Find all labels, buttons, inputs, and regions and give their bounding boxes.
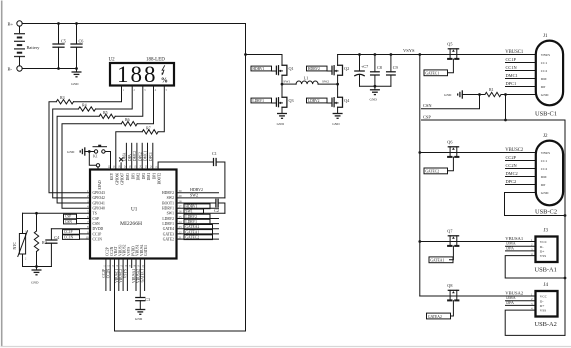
junction J3 vss rail [564, 277, 567, 280]
svg-text:VSS: VSS [540, 309, 546, 313]
svg-text:R2: R2 [42, 240, 47, 245]
svg-text:R1: R1 [489, 87, 494, 92]
wire display pin5 [158, 85, 164, 132]
svg-text:SW2: SW2 [322, 80, 329, 84]
svg-text:GND: GND [31, 281, 39, 285]
junction TS R2 [35, 212, 38, 215]
svg-text:DPA: DPA [506, 300, 514, 305]
svg-text:DPC2: DPC2 [506, 179, 517, 184]
display charge bolt icon [162, 65, 165, 74]
net label GATEA1 row [177, 233, 219, 235]
transistor Q8 [448, 289, 458, 291]
svg-text:C6: C6 [79, 39, 84, 44]
wire NTC bottom rail [23, 266, 52, 268]
net DPC2 stub [506, 184, 536, 186]
svg-text:Q5: Q5 [447, 42, 452, 47]
svg-text:GND: GND [370, 98, 378, 102]
wire gnd to K1 [85, 151, 95, 153]
svg-text:1: 1 [123, 89, 125, 92]
svg-text:U2: U2 [109, 58, 116, 63]
svg-text:C3: C3 [145, 297, 150, 302]
svg-text:GND: GND [71, 82, 79, 86]
svg-text:GATEC1: GATEC1 [141, 269, 145, 283]
wire display pin4 [137, 85, 153, 123]
svg-text:Q4: Q4 [344, 98, 350, 103]
transistor Q6 [448, 146, 458, 148]
svg-text:3: 3 [144, 89, 146, 92]
svg-text:DMC2: DMC2 [133, 151, 137, 161]
svg-text:U1: U1 [131, 207, 138, 213]
svg-text:DM3: DM3 [126, 173, 130, 181]
svg-text:CSP: CSP [93, 217, 100, 221]
wire R3 to U1 pin1 GPIO43 [49, 102, 90, 193]
svg-text:NTC: NTC [13, 241, 17, 249]
svg-text:Q7: Q7 [447, 229, 452, 234]
svg-text:GATE2: GATE2 [163, 237, 174, 241]
capacitor C3 [139, 259, 141, 298]
wire VSYS to Q6 and J2 VBUS [420, 152, 536, 154]
svg-text:GATE3: GATE3 [163, 232, 174, 236]
U1 bottom pin stubs [105, 259, 107, 291]
resistor R4 [78, 107, 95, 111]
wire R7 to U1 GPIO66 [116, 132, 142, 170]
svg-text:R3: R3 [60, 95, 65, 100]
net label HDRV1 at Q1 [251, 66, 272, 71]
net label HDRV1 row [177, 207, 219, 209]
svg-text:HDRV1: HDRV1 [162, 207, 174, 211]
svg-text:CC2: CC2 [541, 167, 548, 171]
svg-text:DMC1: DMC1 [506, 73, 518, 78]
svg-text:VSYS: VSYS [403, 48, 415, 53]
battery BT1 [19, 26, 21, 34]
svg-text:DM: DM [541, 77, 548, 81]
svg-text:LDRV1: LDRV1 [162, 222, 174, 226]
junction VSYS C8 [374, 53, 377, 56]
svg-text:Q2: Q2 [344, 66, 349, 71]
svg-text:GATE4: GATE4 [163, 227, 174, 231]
wire Q5 gate [448, 59, 454, 73]
net DMC2 stub [506, 176, 536, 178]
wire B- to capacitors [22, 68, 76, 70]
svg-text:HDRV2: HDRV2 [308, 67, 320, 71]
wire J3 VSS return [505, 256, 565, 278]
wire CSP vertical from R1 [505, 95, 507, 121]
svg-text:5: 5 [166, 89, 168, 92]
svg-text:CC1: CC1 [541, 159, 548, 163]
capacitor C8 [374, 55, 376, 72]
wire R6 to U1 pin4 GPIO40 [62, 124, 121, 209]
net label GATEC2 row [177, 238, 219, 240]
junction CSP line [504, 119, 507, 122]
svg-text:C4: C4 [54, 235, 60, 240]
net CC2N stub [506, 168, 536, 170]
net label LDRV2 row [177, 218, 219, 220]
wire display pin3 [115, 85, 143, 116]
svg-text:DPC1: DPC1 [506, 81, 517, 86]
svg-text:USB-C2: USB-C2 [535, 209, 557, 216]
capacitor C9 [390, 55, 392, 72]
svg-text:Q8: Q8 [447, 283, 452, 288]
svg-text:CC2N: CC2N [106, 269, 110, 279]
svg-text:KEY: KEY [110, 172, 114, 180]
thermistor NTC R8 [22, 213, 24, 233]
junction VSYS branch [418, 53, 421, 56]
svg-text:GPIO41: GPIO41 [93, 201, 105, 205]
svg-text:C8: C8 [377, 65, 382, 70]
svg-text:GND: GND [135, 317, 143, 321]
junction B+ at C6 [75, 22, 78, 25]
svg-text:D-: D- [540, 245, 545, 249]
net DPC2 wire [141, 143, 143, 169]
junction B- at C5 [57, 67, 60, 70]
ground below Q3 [277, 113, 287, 115]
svg-text:DP2: DP2 [142, 173, 146, 180]
net DPA wire [131, 143, 133, 169]
net label LDRV1 at Q3 [251, 98, 272, 103]
transistor Q5 [448, 48, 458, 50]
svg-text:B+: B+ [8, 22, 14, 27]
svg-text:TS: TS [93, 212, 97, 216]
svg-text:Q1: Q1 [289, 66, 294, 71]
wire J4 VSS return [505, 310, 565, 335]
net CC1N stub [506, 70, 536, 72]
display U2 body [110, 63, 174, 86]
svg-text:VBUSC1: VBUSC1 [505, 50, 524, 55]
inductor L1 [296, 81, 318, 84]
wire display pin1 [74, 85, 122, 101]
svg-text:DM: DM [541, 175, 548, 179]
capacitor C6 [76, 24, 78, 45]
resistor R3 [56, 100, 73, 104]
net label LDRV2 at Q4 [307, 98, 328, 103]
wire R5 to U1 pin3 GPIO41 [57, 116, 99, 203]
svg-text:Q3: Q3 [289, 98, 294, 103]
wire VSYS rail [338, 54, 420, 56]
svg-text:CC2: CC2 [541, 69, 548, 73]
svg-text:USB-C1: USB-C1 [535, 111, 557, 118]
wire R1 to J1 GND pin [501, 94, 536, 96]
junction CSP tap [504, 93, 507, 96]
wire gnd to R1 [462, 94, 485, 96]
svg-text:CC1N: CC1N [64, 235, 74, 239]
wire epad to ground [89, 152, 96, 166]
wire L1 to SW2 [318, 83, 338, 85]
svg-text:CC1: CC1 [541, 61, 548, 65]
svg-text:GND: GND [332, 122, 340, 126]
junction VSYS C9 [390, 53, 393, 56]
svg-text:GPIO40: GPIO40 [93, 207, 105, 211]
pin EPAD bubble [96, 164, 99, 167]
svg-text:GATEA2: GATEA2 [185, 225, 199, 229]
svg-text:DP3: DP3 [131, 173, 135, 180]
svg-text:J3: J3 [544, 229, 549, 234]
svg-text:SW2: SW2 [190, 192, 198, 197]
svg-text:DPC2: DPC2 [138, 152, 142, 161]
net CC1P stub [506, 62, 536, 64]
ground NTC network [36, 267, 38, 271]
wire VBAT to battery rail [115, 24, 246, 332]
svg-text:D+: D+ [540, 250, 545, 254]
junction caps gnd [374, 85, 377, 88]
svg-text:C5: C5 [61, 39, 66, 44]
resistor R1 [485, 92, 501, 96]
capacitor C7 polarized [359, 55, 361, 72]
net label CC1N at U1 [80, 238, 91, 240]
capacitor C1 bootstrap 2 [158, 162, 213, 170]
net label CSP at U1 [77, 218, 91, 220]
svg-text:CC1N: CC1N [93, 237, 103, 241]
svg-text:GATEA1: GATEA1 [185, 230, 199, 234]
svg-text:C9: C9 [393, 65, 398, 70]
net DPA stub J3 [506, 250, 536, 252]
svg-text:LDRV2: LDRV2 [308, 99, 320, 103]
svg-text:CSN: CSN [93, 222, 101, 226]
svg-text:DP: DP [541, 85, 546, 89]
svg-text:SW1: SW1 [185, 210, 193, 214]
svg-text:VCC: VCC [540, 240, 548, 244]
junction CSN tap [478, 93, 481, 96]
net DMA stub J3 [506, 245, 536, 247]
capacitor C5 [58, 24, 60, 45]
junction SW1 [281, 83, 284, 86]
junction rail Q6 [418, 151, 421, 154]
no-connect X on GPIO67 [120, 158, 123, 161]
svg-text:VSYS: VSYS [124, 269, 128, 278]
svg-text:CC2P: CC2P [506, 155, 517, 160]
svg-text:SW1: SW1 [283, 80, 290, 84]
net label GATEA2 row [177, 228, 219, 230]
wire VSYS to Q8 and J4 VCC [420, 295, 536, 297]
svg-text:CSN: CSN [65, 220, 72, 224]
svg-text:GPIO43: GPIO43 [93, 191, 105, 195]
junction battery rail Q1 [244, 53, 247, 56]
svg-text:2: 2 [134, 89, 136, 92]
ground below C8 [374, 86, 376, 90]
svg-text:K1: K1 [93, 155, 98, 159]
svg-text:J1: J1 [543, 34, 548, 39]
net DPC1 wire [152, 143, 154, 169]
svg-text:CSP: CSP [423, 114, 431, 119]
wire J2 GND return [505, 193, 566, 216]
net DMA wire [125, 143, 127, 169]
net label SW1 row [177, 212, 225, 214]
svg-text:CSN: CSN [423, 103, 432, 108]
junction B+ at C5 [57, 22, 60, 25]
net CC2P stub [506, 160, 536, 162]
svg-text:DMC1: DMC1 [144, 151, 148, 161]
svg-text:GPIO66: GPIO66 [115, 173, 119, 185]
wire Q7 gate [450, 246, 454, 260]
svg-text:CC1P: CC1P [506, 57, 517, 62]
svg-text:LDRV2: LDRV2 [185, 215, 197, 219]
svg-text:CC1N: CC1N [506, 65, 518, 70]
resistor R7 [142, 130, 158, 134]
wire VSYS to Q5 and J1 VBUS [420, 54, 536, 56]
svg-text:GATEA1: GATEA1 [430, 259, 444, 263]
net label GATEA1 [429, 257, 453, 263]
pushbutton K1 [94, 150, 97, 153]
svg-text:DMA: DMA [123, 152, 127, 161]
svg-text:GATE1: GATE1 [144, 245, 148, 256]
net DMC2 wire [136, 143, 138, 169]
svg-text:2: 2 [25, 258, 27, 261]
wire B+ rail to top-right corner [22, 23, 245, 25]
svg-text:D-: D- [540, 299, 545, 303]
svg-text:GPIO67: GPIO67 [121, 173, 125, 185]
net label GATEC1 [424, 70, 448, 76]
wire HDRV2 row [177, 192, 219, 194]
wire CSP net [422, 120, 566, 335]
wire battery rail to Q1 [246, 54, 283, 56]
wire R4 to U1 pin2 GPIO42 [53, 109, 90, 198]
svg-text:%: % [161, 77, 168, 85]
ground below C3 [135, 309, 145, 311]
svg-text:J4: J4 [544, 283, 549, 288]
svg-text:DPC1: DPC1 [149, 152, 153, 161]
transistor Q2 [337, 55, 339, 66]
terminal B- [17, 66, 22, 71]
junction VSYS C7 [358, 53, 361, 56]
svg-text:GND: GND [541, 191, 549, 195]
svg-text:+C7: +C7 [361, 64, 368, 69]
svg-text:CC2N: CC2N [506, 163, 518, 168]
net label LDRV1 row [177, 223, 219, 225]
wire caps ground rail [360, 85, 391, 87]
junction gnd epad [88, 150, 91, 153]
svg-text:R5: R5 [103, 110, 108, 115]
svg-text:DP1: DP1 [152, 173, 156, 180]
svg-text:B-: B- [8, 67, 13, 72]
page border left edge [1, 1, 3, 347]
svg-text:VBUSC2: VBUSC2 [505, 148, 524, 153]
svg-text:MI2266H: MI2266H [120, 221, 142, 227]
svg-text:HDRV1: HDRV1 [252, 67, 264, 71]
net DMC1 stub [506, 78, 536, 80]
svg-text:LDRV1: LDRV1 [252, 99, 264, 103]
svg-text:GPIO42: GPIO42 [93, 196, 105, 200]
svg-text:4: 4 [155, 89, 157, 92]
net DPA stub J4 [506, 304, 536, 306]
svg-text:SW1: SW1 [167, 212, 175, 216]
net label CSN at U1 [77, 223, 91, 225]
svg-text:GATEA2: GATEA2 [428, 315, 442, 319]
svg-text:EPAD: EPAD [98, 180, 102, 189]
svg-text:GND: GND [444, 93, 452, 97]
resistor R2 [36, 213, 38, 231]
junction rail Q7 [418, 240, 421, 243]
svg-text:HDRV2: HDRV2 [162, 191, 174, 195]
junction SW2 [336, 83, 339, 86]
svg-text:GND: GND [541, 93, 549, 97]
junction gnd NTC [35, 265, 38, 268]
svg-text:R4: R4 [82, 103, 87, 108]
transistor Q4 [327, 102, 332, 104]
net DMA stub J4 [506, 300, 536, 302]
svg-text:D+: D+ [540, 304, 545, 308]
svg-text:CC1P: CC1P [93, 232, 102, 236]
wire Q6 gate [448, 157, 454, 171]
svg-text:VBUS: VBUS [541, 53, 550, 57]
svg-text:BOOT1: BOOT1 [162, 201, 174, 205]
svg-text:GND: GND [277, 122, 285, 126]
svg-text:DP: DP [541, 183, 546, 187]
svg-text:VBUS: VBUS [541, 151, 550, 155]
svg-text:L1: L1 [304, 76, 309, 81]
svg-text:DMC2: DMC2 [506, 171, 518, 176]
wire K1 to U1 KEY pin [105, 152, 110, 170]
svg-text:DPA: DPA [128, 154, 132, 161]
svg-text:DM2: DM2 [137, 173, 141, 181]
svg-text:BOOT2: BOOT2 [158, 173, 162, 185]
transistor Q1 [281, 55, 283, 66]
net label GATEA2 [427, 313, 451, 319]
svg-text:USB-A2: USB-A2 [535, 321, 557, 328]
capacitor C4 on DVDD [51, 228, 90, 230]
resistor R6 [121, 122, 137, 126]
page border bottom edge [1, 346, 571, 348]
net label GATEC2 [424, 168, 448, 174]
svg-text:R6: R6 [125, 117, 130, 122]
svg-text:Q6: Q6 [447, 140, 452, 145]
resistor R5 [99, 114, 115, 118]
svg-text:GND: GND [67, 150, 75, 154]
svg-text:Battery: Battery [27, 45, 41, 50]
svg-text:J2: J2 [543, 134, 548, 139]
wire Q8 gate [451, 301, 454, 316]
svg-text:GATEC2: GATEC2 [185, 236, 199, 240]
wire SW2 row [177, 197, 225, 199]
wire VSYS to Q7 and J3 VCC [420, 241, 536, 243]
svg-text:SW2: SW2 [167, 196, 175, 200]
svg-text:CC1P: CC1P [64, 230, 73, 234]
ground below C6 [76, 69, 78, 73]
svg-text:CSP: CSP [65, 215, 71, 219]
svg-text:VSS: VSS [540, 254, 546, 258]
transistor Q3 [272, 102, 277, 104]
net label CC1P at U1 [80, 233, 91, 235]
wire TS net [23, 212, 91, 214]
transistor Q7 [448, 235, 458, 237]
op-amp U1 body MI2266H [90, 170, 177, 259]
svg-text:DM1: DM1 [147, 173, 151, 181]
wire VSYS distribution rail [419, 55, 421, 297]
junction B- C6 gnd [75, 67, 78, 70]
svg-text:LDRV1: LDRV1 [185, 220, 197, 224]
svg-text:GATEC2: GATEC2 [425, 170, 439, 174]
ground below Q4 [333, 113, 343, 115]
svg-text:C1: C1 [212, 151, 217, 156]
wire BOOT1 row [177, 202, 216, 204]
junction J2 gnd rail [564, 214, 567, 217]
svg-text:DVDD: DVDD [93, 227, 104, 231]
net DPC1 stub [506, 86, 536, 88]
wire SW1 to L1 [282, 83, 296, 85]
svg-text:R7: R7 [146, 125, 151, 130]
terminal B+ [17, 21, 22, 26]
svg-text:188: 188 [117, 62, 158, 87]
net DMC1 wire [147, 143, 149, 169]
svg-text:LDRV2: LDRV2 [162, 217, 174, 221]
capacitor C2 bootstrap 1 [215, 199, 217, 207]
svg-text:USB-A1: USB-A1 [535, 267, 557, 274]
net label HDRV2 at Q2 [307, 66, 328, 71]
svg-text:VCC: VCC [540, 295, 548, 299]
wire display pin2 [96, 85, 133, 109]
wire CSN net [422, 95, 480, 109]
svg-text:HDRV1: HDRV1 [185, 205, 197, 209]
svg-text:GATEC1: GATEC1 [425, 72, 439, 76]
U1 top pin stubs [110, 163, 112, 170]
